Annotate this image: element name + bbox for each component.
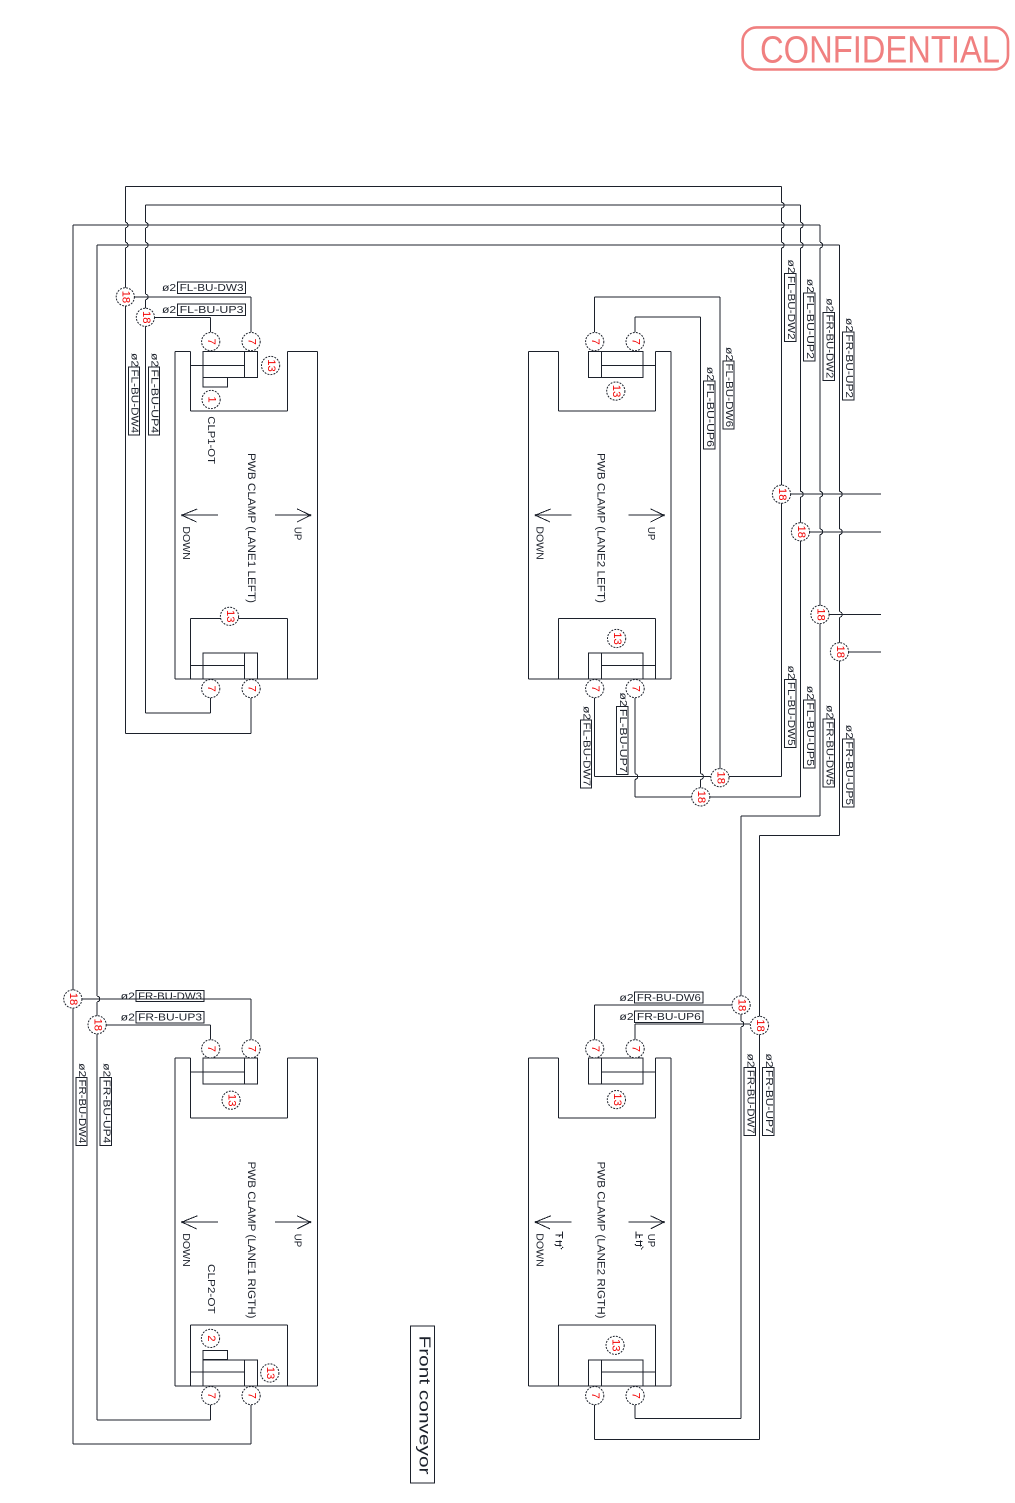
balloon fitting 7 clamp3 top right — [242, 1040, 260, 1058]
balloon tee 18 on V8 — [830, 643, 848, 661]
wire clamp1 bottom left port to FL-BU-UP4 — [210, 698, 212, 713]
arrow DOWN — [182, 514, 218, 516]
label ø2FL-BU-DW4 — [128, 367, 139, 435]
balloon tee 18 on V5 — [772, 485, 790, 503]
arrow UP — [275, 1221, 311, 1223]
label ø2FL-BU-DW3 — [177, 282, 245, 293]
svg-text:18: 18 — [736, 999, 748, 1012]
svg-text:Front conveyor: Front conveyor — [416, 1336, 433, 1476]
svg-text:7: 7 — [589, 685, 601, 691]
PWB clamp LANE2 LEFT body outline — [529, 350, 559, 352]
svg-text:FR-BU-UP4: FR-BU-UP4 — [100, 1080, 112, 1144]
svg-text:7: 7 — [246, 338, 258, 344]
svg-text:ø2: ø2 — [704, 367, 716, 381]
svg-text:ø2: ø2 — [162, 282, 176, 294]
balloon tee 18 clamp4 DW — [732, 996, 750, 1014]
svg-text:13: 13 — [610, 1339, 622, 1352]
label ø2FL-BU-UP6 — [704, 381, 715, 449]
balloon clamp unit 13 clamp2 top — [607, 382, 625, 400]
svg-text:FL-BU-UP3: FL-BU-UP3 — [180, 304, 244, 316]
svg-text:7: 7 — [205, 1046, 217, 1052]
svg-text:18: 18 — [695, 791, 707, 804]
svg-text:PWB CLAMP (LANE2 LEFT): PWB CLAMP (LANE2 LEFT) — [595, 453, 607, 603]
svg-text:FR-BU-DW4: FR-BU-DW4 — [76, 1080, 88, 1144]
label ø2FR-BU-UP3 — [136, 1012, 204, 1023]
svg-text:FL-BU-DW3: FL-BU-DW3 — [180, 282, 244, 294]
balloon tee 18 clamp4 UP — [750, 1016, 768, 1034]
svg-text:7: 7 — [630, 338, 642, 344]
balloon fitting 7 clamp1 bottom right — [242, 680, 260, 698]
balloon clamp unit 13 clamp4 bottom — [606, 1336, 624, 1354]
balloon fitting 7 clamp2 bottom right — [626, 680, 644, 698]
wire FL-BU-DW3 branch (tee18 to clamp1 top right port) — [135, 296, 252, 298]
svg-text:ø2: ø2 — [723, 347, 735, 361]
label ø2FR-BU-UP4 — [100, 1077, 111, 1145]
svg-text:7: 7 — [246, 1392, 258, 1398]
balloon fitting 7 clamp3 top left — [202, 1040, 220, 1058]
svg-text:FL-BU-UP6: FL-BU-UP6 — [704, 383, 716, 447]
balloon fitting 7 clamp3 bottom right — [242, 1387, 260, 1405]
text annotation sage (lower) clamp4 — [555, 1232, 563, 1250]
balloon tee 18 on V7 — [811, 605, 829, 623]
svg-text:FR-BU-UP6: FR-BU-UP6 — [637, 1011, 701, 1023]
svg-text:ø2: ø2 — [804, 279, 816, 293]
balloon tee 18 on FL-BU-UP4 — [136, 308, 154, 326]
svg-text:FR-BU-UP2: FR-BU-UP2 — [843, 334, 855, 398]
clamp3 sensor block CLP2-OT — [203, 1350, 228, 1359]
balloon clamp unit 13 clamp4 top — [607, 1091, 625, 1109]
svg-text:13: 13 — [610, 385, 622, 398]
PWB clamp LANE1 RIGTH body outline — [175, 1057, 190, 1059]
wire riser FR-BU-DW2/DW5 (V7) — [819, 225, 821, 242]
balloon fitting 7 clamp4 top left — [586, 1040, 604, 1058]
svg-text:13: 13 — [264, 1367, 276, 1380]
stamp CONFIDENTIAL — [743, 27, 1008, 69]
wire bus FR-BU-DW line (top bus C) — [73, 224, 820, 226]
svg-text:FL-BU-DW4: FL-BU-DW4 — [129, 369, 141, 433]
wire riser FR-BU-DW4 (V3) — [72, 225, 74, 1444]
balloon fitting 7 clamp1 bottom left — [202, 680, 220, 698]
wire V7 elbow left — [741, 815, 820, 817]
balloon clamp unit 13 clamp3 top — [222, 1091, 240, 1109]
balloon fitting 7 clamp1 top left — [202, 333, 220, 351]
label ø2FR-BU-UP2 — [843, 332, 854, 400]
balloon fitting 7 clamp4 top right — [626, 1040, 644, 1058]
balloon tee 18 on V6 — [791, 523, 809, 541]
label ø2FR-BU-DW2 — [823, 312, 834, 380]
svg-text:FR-BU-DW7: FR-BU-DW7 — [744, 1070, 756, 1134]
svg-text:FR-BU-DW3: FR-BU-DW3 — [138, 990, 202, 1002]
PWB clamp LANE2 LEFT top cylinder fitting — [588, 351, 643, 377]
svg-text:18: 18 — [67, 993, 79, 1006]
wire riser FL-BU-UP2/UP5 (V6) — [800, 205, 802, 222]
PWB clamp LANE2 RIGTH bottom cylinder fitting — [588, 1360, 643, 1386]
label ø2FL-BU-UP2 — [804, 293, 815, 361]
arrow UP — [628, 514, 664, 516]
svg-text:PWB CLAMP (LANE2 RIGTH): PWB CLAMP (LANE2 RIGTH) — [595, 1162, 607, 1319]
balloon tee 18 on FL-BU-DW4 — [116, 288, 134, 306]
wire branch H8 from tee 18 on V8 — [849, 651, 881, 653]
wire branch H6 from tee 18 on V6 — [810, 531, 881, 533]
svg-text:UP: UP — [292, 527, 303, 541]
svg-text:FR-BU-DW2: FR-BU-DW2 — [823, 315, 835, 379]
wire clamp3 bottom right port to FR-BU-DW4 — [250, 1405, 252, 1444]
wire V5 bottom elbow to tee — [729, 776, 781, 778]
svg-text:18: 18 — [795, 526, 807, 539]
svg-text:UP: UP — [292, 1234, 303, 1248]
balloon clamp unit 13 clamp2 bottom — [608, 629, 626, 647]
svg-text:ø2: ø2 — [121, 1012, 135, 1024]
label ø2FR-BU-DW4 — [76, 1077, 87, 1145]
balloon fitting 7 clamp2 bottom left — [586, 680, 604, 698]
svg-text:PWB CLAMP (LANE1 LEFT): PWB CLAMP (LANE1 LEFT) — [245, 453, 257, 603]
clamp1 sensor block CLP1-OT — [203, 378, 228, 388]
balloon tee 18 clamp2 UP — [692, 788, 710, 806]
svg-text:7: 7 — [205, 338, 217, 344]
svg-text:DOWN: DOWN — [180, 1233, 191, 1266]
PWB clamp LANE2 RIGTH top cylinder fitting — [588, 1058, 643, 1084]
svg-text:7: 7 — [630, 1392, 642, 1398]
svg-text:FR-BU-UP7: FR-BU-UP7 — [763, 1070, 775, 1134]
svg-text:ø2: ø2 — [763, 1054, 775, 1068]
svg-text:FL-BU-DW7: FL-BU-DW7 — [581, 722, 593, 786]
svg-text:18: 18 — [92, 1019, 104, 1032]
svg-text:FR-BU-UP5: FR-BU-UP5 — [843, 741, 855, 805]
balloon clamp unit 13 clamp1 bottom — [220, 607, 238, 625]
svg-text:ø2: ø2 — [581, 706, 593, 720]
wire V8 elbow left — [760, 834, 840, 836]
wire riser FR-BU-UP2/UP5 (V8) — [839, 245, 841, 491]
label ø2FL-BU-UP5 — [804, 700, 815, 768]
balloon clamp unit 13 clamp1 top — [262, 356, 280, 374]
svg-text:ø2: ø2 — [804, 686, 816, 700]
label ø2FR-BU-UP7 — [763, 1068, 774, 1136]
svg-text:CONFIDENTIAL: CONFIDENTIAL — [760, 30, 1000, 72]
wire FR-BU-DW3 branch (tee18 to clamp3 top right port) — [82, 998, 251, 1000]
wire FR-BU-UP3 branch (tee18 to clamp3 top left port) — [106, 1024, 210, 1026]
wire riser FR-BU-DW5 lower (V9) — [740, 816, 742, 1021]
label ø2FL-BU-DW2 — [785, 274, 796, 342]
arrow DOWN — [535, 514, 571, 516]
svg-text:UP: UP — [645, 1234, 656, 1248]
svg-text:ø2: ø2 — [162, 304, 176, 316]
svg-text:ø2: ø2 — [785, 260, 797, 274]
svg-text:FL-BU-UP4: FL-BU-UP4 — [149, 369, 161, 433]
label ø2FL-BU-UP7 — [617, 707, 628, 775]
balloon fitting 7 clamp3 bottom left — [202, 1387, 220, 1405]
balloon tee 18 on FR-BU-DW4 — [64, 990, 82, 1008]
svg-text:ø2: ø2 — [823, 705, 835, 719]
svg-text:18: 18 — [814, 608, 826, 621]
balloon fitting 7 clamp1 top right — [242, 333, 260, 351]
svg-text:ø2: ø2 — [129, 353, 141, 367]
wire riser FL-BU-DW2/DW5 (V5) — [781, 186, 783, 202]
svg-text:DOWN: DOWN — [534, 1233, 545, 1266]
label ø2FL-BU-UP4 — [148, 367, 159, 435]
wire FL-BU-UP3 branch (tee18 to clamp1 top left port) — [155, 316, 211, 318]
svg-text:7: 7 — [205, 685, 217, 691]
svg-text:DOWN: DOWN — [534, 526, 545, 559]
wire clamp4 bottom left port to FR-BU-UP7 — [594, 1405, 596, 1440]
label ø2FR-BU-UP6 — [635, 1011, 703, 1022]
balloon clamp unit 13 clamp3 bottom — [261, 1364, 279, 1382]
svg-text:ø2: ø2 — [121, 990, 135, 1002]
arrow DOWN — [182, 1221, 218, 1223]
svg-text:ø2: ø2 — [823, 298, 835, 312]
label ø2FR-BU-DW6 — [635, 992, 703, 1003]
svg-text:7: 7 — [246, 685, 258, 691]
wire riser FL-BU-UP4 (V2) — [144, 205, 146, 222]
wire bus FL-BU-UP line (top bus B) — [145, 204, 800, 206]
label ø2FR-BU-UP5 — [843, 739, 854, 807]
svg-text:FL-BU-UP5: FL-BU-UP5 — [804, 702, 816, 766]
svg-text:FL-BU-DW2: FL-BU-DW2 — [785, 276, 797, 340]
svg-text:ø2: ø2 — [149, 353, 161, 367]
PWB clamp LANE1 LEFT top cylinder fitting — [203, 351, 258, 377]
wire FL-BU-DW6 (clamp2 top left port riser) — [594, 297, 596, 332]
svg-text:18: 18 — [140, 311, 152, 324]
svg-text:FR-BU-DW5: FR-BU-DW5 — [823, 721, 835, 785]
svg-text:ø2: ø2 — [619, 1011, 633, 1023]
svg-text:ø2: ø2 — [744, 1054, 756, 1068]
text annotation age (raise) clamp4 — [635, 1232, 643, 1250]
wire riser FL-BU-DW4 (V1) — [124, 186, 126, 222]
svg-text:ø2: ø2 — [617, 693, 629, 707]
svg-text:18: 18 — [714, 771, 726, 784]
arrow UP — [275, 514, 311, 516]
svg-text:CLP2-OT: CLP2-OT — [205, 1264, 216, 1314]
svg-text:7: 7 — [589, 1392, 601, 1398]
svg-text:13: 13 — [224, 610, 236, 623]
label ø2FL-BU-DW7 — [580, 720, 591, 788]
svg-text:7: 7 — [246, 1046, 258, 1052]
svg-text:1: 1 — [206, 396, 218, 402]
svg-text:13: 13 — [611, 1093, 623, 1106]
balloon tee 18 clamp2 DW — [711, 769, 729, 787]
label ø2FR-BU-DW5 — [823, 719, 834, 787]
svg-text:7: 7 — [205, 1392, 217, 1398]
wire branch H7 from tee 18 on V7 — [829, 614, 881, 616]
title box Front conveyor — [410, 1326, 434, 1483]
label ø2FL-BU-UP3 — [177, 304, 245, 315]
svg-text:ø2: ø2 — [843, 318, 855, 332]
wire bus FL-BU-DW line (top bus A) — [125, 185, 781, 187]
svg-text:UP: UP — [645, 527, 656, 541]
wire V6 bottom elbow to tee — [710, 796, 801, 798]
svg-text:ø2: ø2 — [76, 1063, 88, 1077]
wire clamp4 bottom right port to FR-BU-DW7 — [634, 1405, 636, 1419]
balloon tee 18 on FR-BU-UP4 — [88, 1016, 106, 1034]
balloon fitting 7 clamp2 top left — [586, 333, 604, 351]
label ø2FL-BU-DW5 — [785, 680, 796, 748]
arrow UP — [628, 1221, 664, 1223]
svg-text:ø2: ø2 — [843, 725, 855, 739]
label ø2FR-BU-DW7 — [744, 1068, 755, 1136]
wire bus FR-BU-UP line (top bus D) — [97, 244, 839, 246]
svg-text:FL-BU-DW6: FL-BU-DW6 — [723, 363, 735, 427]
svg-text:13: 13 — [611, 632, 623, 645]
label ø2FR-BU-DW3 — [136, 990, 204, 1001]
svg-text:FR-BU-UP3: FR-BU-UP3 — [138, 1012, 202, 1024]
wire FL-BU-UP6 (clamp2 top right port riser) — [634, 317, 636, 332]
wire FL-BU-UP7 (clamp2 bottom right port to tee) — [634, 698, 636, 774]
svg-text:2: 2 — [205, 1335, 217, 1341]
wire clamp3 bottom left port to FR-BU-UP4 — [210, 1405, 212, 1420]
svg-text:PWB CLAMP (LANE1 RIGTH): PWB CLAMP (LANE1 RIGTH) — [245, 1162, 257, 1319]
label ø2FL-BU-DW6 — [723, 361, 734, 429]
balloon fitting 7 clamp4 bottom left — [586, 1387, 604, 1405]
PWB clamp LANE1 RIGTH bottom cylinder fitting — [203, 1360, 258, 1386]
svg-text:7: 7 — [630, 1046, 642, 1052]
svg-text:18: 18 — [834, 646, 846, 659]
svg-text:13: 13 — [226, 1094, 238, 1107]
wire riser FR-BU-UP5 lower (V10) — [759, 835, 761, 1439]
balloon cylinder 2 (CLP2-OT) — [201, 1329, 219, 1347]
arrow DOWN — [535, 1221, 571, 1223]
svg-text:DOWN: DOWN — [180, 526, 191, 559]
svg-text:7: 7 — [589, 1046, 601, 1052]
wire clamp1 bottom right port to FL-BU-DW4 — [250, 698, 252, 734]
svg-text:CLP1-OT: CLP1-OT — [205, 416, 216, 464]
svg-text:ø2: ø2 — [100, 1063, 112, 1077]
PWB clamp LANE1 LEFT bottom cylinder fitting — [203, 653, 258, 679]
svg-text:18: 18 — [120, 291, 132, 304]
svg-text:FL-BU-UP2: FL-BU-UP2 — [804, 295, 816, 359]
svg-text:7: 7 — [630, 685, 642, 691]
balloon fitting 7 clamp2 top right — [626, 333, 644, 351]
svg-text:FL-BU-DW5: FL-BU-DW5 — [785, 682, 797, 746]
svg-text:ø2: ø2 — [619, 992, 633, 1004]
svg-text:18: 18 — [754, 1019, 766, 1032]
wire FL-BU-DW7 (clamp2 bottom left port to tee) — [594, 698, 596, 777]
PWB clamp LANE1 RIGTH top cylinder fitting — [203, 1058, 258, 1084]
PWB clamp LANE2 RIGTH body outline — [529, 1057, 559, 1059]
PWB clamp LANE2 LEFT bottom cylinder fitting — [588, 653, 643, 679]
svg-text:ø2: ø2 — [785, 666, 797, 680]
svg-text:7: 7 — [589, 338, 601, 344]
svg-text:FR-BU-DW6: FR-BU-DW6 — [637, 992, 701, 1004]
balloon fitting 7 clamp4 bottom right — [626, 1387, 644, 1405]
wire FR-BU-UP6 branch (tee18 to clamp4 top right port) — [635, 1023, 750, 1025]
wire branch H5 from tee 18 on V5 — [791, 493, 881, 495]
svg-text:FL-BU-UP7: FL-BU-UP7 — [617, 709, 629, 773]
PWB clamp LANE1 LEFT body outline — [175, 350, 190, 352]
svg-text:13: 13 — [265, 359, 277, 372]
balloon cylinder 1 (CLP1-OT) — [202, 390, 220, 408]
wire FR-BU-DW6 branch (tee18 to clamp4 top left port) — [595, 1004, 732, 1006]
svg-text:18: 18 — [776, 488, 788, 501]
wire riser FR-BU-UP4 (V4) — [96, 245, 98, 996]
